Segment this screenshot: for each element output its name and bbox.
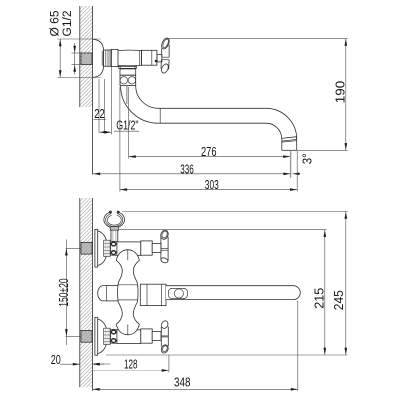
- handle hub joint lines (top view): [162, 56, 169, 58]
- collar with rings: [111, 241, 117, 255]
- handle stem (front): [152, 332, 161, 341]
- dimension 336 outside arrow: [292, 173, 300, 175]
- svg-text:20: 20: [51, 352, 61, 367]
- dimension 303 extension lines: [119, 87, 121, 192]
- svg-text:3°: 3°: [299, 153, 314, 164]
- valve body tube (front): [117, 242, 141, 256]
- wall section (front view): [80, 198, 93, 387]
- dimension G1/2 line and arrows: [74, 43, 76, 75]
- dimension 20 line and arrows: [60, 363, 80, 365]
- valve body cylinder (top view): [118, 50, 142, 66]
- dimension 336 line and arrows: [93, 173, 291, 175]
- handle screw (top view): [155, 60, 158, 63]
- dimension 150±20 extension lines: [66, 247, 81, 249]
- escutcheon dome (front): [98, 319, 108, 354]
- downpipe cone rings (top view): [119, 66, 138, 68]
- dimension 190 extension lines: [165, 38, 348, 40]
- knurled eccentric nut: [104, 240, 110, 256]
- svg-text:22: 22: [94, 106, 105, 121]
- dimension 22 extension lines: [98, 79, 100, 132]
- escutcheon dome (front): [98, 231, 108, 266]
- lower cross handle (front): [160, 327, 162, 347]
- shower outlet stub (left of column): [98, 286, 107, 301]
- shower hose hook ring: [104, 212, 125, 228]
- body column fan seams: [127, 250, 129, 261]
- body column bulge band lines: [118, 284, 137, 286]
- connector nut (top view): [104, 50, 112, 66]
- spout elbow at body (top view): [121, 86, 159, 124]
- wall left edge line (top view): [79, 6, 81, 107]
- wall face line (front view): [92, 198, 94, 391]
- collar with rings: [111, 329, 117, 343]
- spout straight tube (top view): [158, 107, 266, 109]
- body flange (top view): [111, 49, 118, 66]
- dimension 128 extension line: [168, 355, 170, 373]
- valve cartridge box (front): [141, 241, 152, 255]
- downpipe inner bore line: [126, 86, 128, 104]
- dimension 348 line and arrows: [93, 388, 299, 390]
- wall left edge line (front view): [79, 198, 81, 387]
- svg-text:190: 190: [333, 81, 348, 104]
- body column silhouette (baluster): [116, 250, 139, 335]
- dimension 190 line and arrows: [345, 39, 347, 151]
- handle stem (top view): [157, 54, 162, 62]
- svg-text:245: 245: [331, 290, 346, 310]
- svg-text:336: 336: [180, 161, 194, 176]
- svg-text:Ø 65: Ø 65: [49, 11, 61, 37]
- svg-text:G1/2": G1/2": [116, 118, 139, 133]
- svg-text:303: 303: [205, 177, 219, 192]
- knurled eccentric nut: [104, 328, 110, 344]
- diverter knob on spout: [168, 288, 187, 298]
- aerator centerline extension (gray): [290, 150, 292, 178]
- cross handle lower arm (top view): [160, 60, 162, 69]
- handle stem (front): [152, 244, 161, 253]
- svg-text:215: 215: [311, 288, 326, 309]
- dimension 128 leader line (gray): [93, 369, 169, 371]
- spout bar (front view): [166, 286, 300, 300]
- dimension 215 line and arrows: [324, 230, 326, 355]
- supply pipe stub in wall (top view): [81, 53, 92, 65]
- dimension 128 line left part with arrow: [93, 363, 111, 365]
- svg-text:348: 348: [174, 375, 191, 390]
- dimension 150±20 line and arrows: [65, 240, 67, 346]
- cartridge housing (top view): [142, 50, 157, 65]
- dimension 303 line and arrows: [120, 189, 297, 191]
- svg-text:276: 276: [201, 144, 217, 159]
- svg-text:128: 128: [124, 356, 138, 371]
- valve body tube (front): [117, 330, 141, 344]
- aerator end piece (top view): [281, 138, 283, 151]
- hook stem: [110, 230, 112, 241]
- dimension 245 line and arrows: [345, 212, 347, 356]
- lower supply pipe stub in wall: [81, 331, 92, 343]
- extension line bottom of faucet (215/245): [106, 354, 348, 356]
- svg-text:G1/2: G1/2: [62, 11, 74, 37]
- spout end extension line (348): [297, 301, 299, 391]
- cross handle upper arm (top view): [161, 49, 163, 58]
- extension line from body top (215): [118, 229, 327, 231]
- dimension 276 line and arrows: [129, 156, 291, 158]
- hook collar: [110, 227, 118, 231]
- spout union nut (top view): [120, 69, 136, 75]
- escutcheon dome (top view): [93, 39, 104, 77]
- spout base block (front): [140, 284, 166, 305]
- extension line from hook top (245): [122, 211, 347, 213]
- spout end elbow (top view): [266, 108, 297, 139]
- escutcheon back plate: [95, 318, 98, 356]
- wall face line (top view): [92, 6, 94, 175]
- valve cartridge box (front): [141, 329, 152, 343]
- dimension Ø65 extension lines: [58, 38, 101, 40]
- dimension G1/2 extension lines: [72, 52, 82, 54]
- dimension Ø65 line and arrows: [59, 39, 61, 78]
- svg-text:150±20: 150±20: [56, 278, 71, 307]
- escutcheon back plate: [95, 229, 98, 267]
- upper supply pipe stub in wall: [81, 242, 92, 254]
- dimension 276 extension line (pipe centerline): [128, 87, 130, 159]
- wall section (top view): [80, 6, 93, 107]
- upper cross handle (front): [160, 236, 162, 261]
- dimension 22 line and arrows: [99, 131, 112, 133]
